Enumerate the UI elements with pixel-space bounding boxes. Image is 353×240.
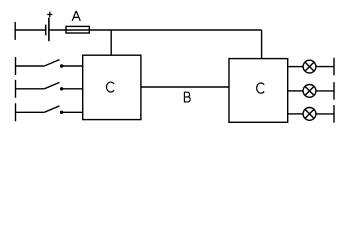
battery terminal bar (left) bbox=[14, 22, 16, 40]
wire: drop to left unit (node) bbox=[110, 30, 112, 55]
polarity + sign bbox=[47, 12, 52, 18]
wire: battery to fuse bbox=[49, 29, 66, 31]
battery G1: short plate bbox=[45, 25, 47, 36]
wire B: left unit to right unit bbox=[141, 86, 229, 88]
control unit C (right box) bbox=[229, 59, 288, 123]
label B bbox=[184, 92, 190, 102]
switch S1 terminal bar bbox=[15, 57, 17, 75]
battery G1: long plate bbox=[48, 18, 50, 42]
lamp E1 bbox=[303, 60, 316, 73]
lamp E3 bbox=[303, 108, 316, 121]
wire: S2 to left unit bbox=[62, 88, 83, 90]
wire: S1 to left unit bbox=[62, 65, 83, 67]
wire: right unit to lamp E1 bbox=[288, 66, 303, 68]
wire: S1 terminal to pivot bbox=[16, 65, 45, 67]
wire: right unit to lamp E3 bbox=[288, 113, 303, 115]
switch S1 blade bbox=[44, 60, 59, 66]
lamp E2 bbox=[303, 85, 316, 98]
top bus wire bbox=[89, 29, 261, 31]
wire: lamp E2 to terminal bbox=[316, 90, 334, 92]
label A bbox=[72, 12, 80, 22]
switch S3 contact dot bbox=[60, 111, 63, 114]
lamp E2 terminal bar bbox=[333, 82, 335, 100]
wire: lamp E1 to terminal bbox=[316, 66, 334, 68]
lamp E1 terminal bar bbox=[333, 58, 335, 76]
wire: drop to right unit bbox=[261, 30, 263, 59]
wire: lamp E3 to terminal bbox=[316, 113, 334, 115]
wire: terminal to battery bbox=[15, 29, 46, 31]
wire: S2 terminal to pivot bbox=[16, 88, 45, 90]
switch S1 contact dot bbox=[60, 64, 63, 67]
fuse A: body bbox=[66, 26, 89, 33]
label C (left unit) bbox=[106, 82, 114, 92]
switch S3 blade bbox=[44, 106, 59, 112]
control unit C (left box) bbox=[83, 55, 141, 119]
wire: right unit to lamp E2 bbox=[288, 90, 303, 92]
lamp E3 terminal bar bbox=[333, 105, 335, 123]
switch S2 blade bbox=[44, 82, 59, 88]
wire: S3 to left unit bbox=[62, 111, 83, 113]
switch S2 terminal bar bbox=[15, 80, 17, 98]
switch S2 contact dot bbox=[60, 87, 63, 90]
label C (right unit) bbox=[257, 83, 265, 93]
switch S3 terminal bar bbox=[15, 103, 17, 121]
wire: S3 terminal to pivot bbox=[16, 111, 45, 113]
fuse A: wire through body bbox=[66, 29, 89, 31]
